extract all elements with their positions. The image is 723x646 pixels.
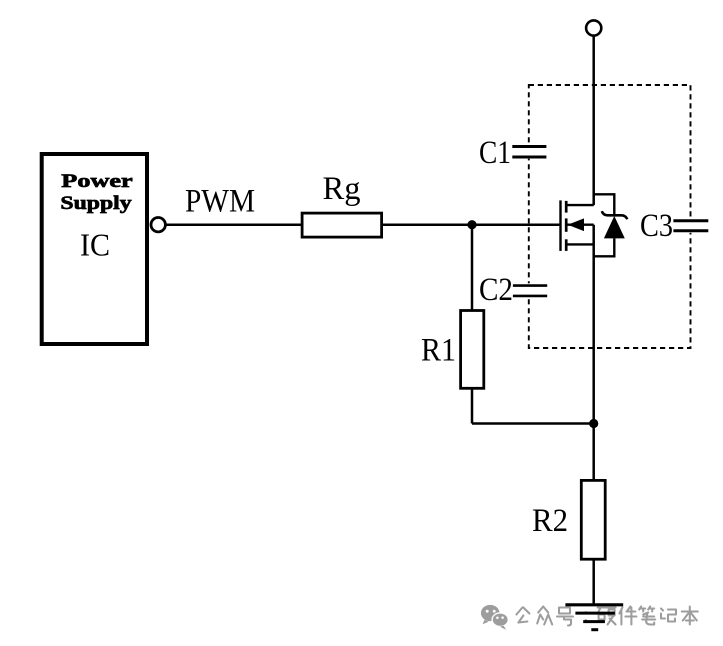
svg-text:IC: IC <box>80 227 110 263</box>
svg-text:C1: C1 <box>479 135 511 171</box>
svg-text:Rg: Rg <box>323 171 361 207</box>
svg-text:Power: Power <box>61 171 133 192</box>
svg-text:PWM: PWM <box>185 184 255 220</box>
svg-text:Supply: Supply <box>60 193 132 214</box>
svg-text:R1: R1 <box>421 333 456 369</box>
svg-text:C3: C3 <box>640 208 673 244</box>
svg-text:C2: C2 <box>479 272 513 308</box>
svg-text:R2: R2 <box>532 503 568 539</box>
